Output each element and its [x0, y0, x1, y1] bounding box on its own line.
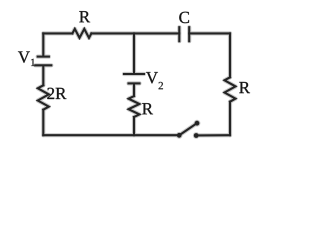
battery V1 top plate (short, negative): [38, 56, 49, 58]
wire top-right segment (C1 to top-right corner): [189, 32, 230, 34]
wire left lower segment (R2 to bottom-left corner): [42, 110, 44, 136]
battery V2 bottom plate (short, negative): [129, 82, 140, 84]
battery V1 bottom plate (long, positive): [35, 64, 51, 66]
resistor R2 (2R) zigzag: [38, 85, 49, 109]
wire bottom-right segment (switch S1 to bottom-right corner): [196, 134, 230, 136]
wire middle branch (V2 to resistor R4): [133, 85, 135, 97]
label C1 value "C": [179, 12, 189, 23]
label battery V2 "V2": [146, 72, 163, 89]
label R2 value "2R": [47, 88, 66, 99]
wire middle branch lower (R4 to bottom junction node): [133, 117, 135, 135]
wire top-left segment (node A to resistor R1): [43, 32, 72, 34]
capacitor C1 left plate: [178, 27, 180, 41]
label R3 value "R": [239, 82, 250, 93]
wire top-middle segment (R1 to capacitor C1): [91, 32, 179, 34]
switch S1 lever end dot: [195, 121, 200, 126]
resistor R1 (top R) zigzag: [72, 29, 91, 38]
switch S1 right terminal dot: [194, 133, 199, 138]
switch S1 lever: [180, 123, 197, 135]
resistor R3 (right R) zigzag: [225, 77, 236, 101]
wire bottom-left segment (bottom-left corner to switch S1): [43, 134, 179, 136]
resistor R4 (middle R) zigzag: [129, 96, 140, 117]
wire left upper segment (top-left corner to battery V1): [42, 33, 44, 55]
wire right lower segment: [229, 102, 231, 136]
wire right upper segment: [229, 33, 231, 77]
battery V2 top plate (long, positive): [124, 73, 144, 75]
label R1 value "R": [79, 11, 90, 22]
capacitor C1 right plate: [188, 27, 190, 41]
wire left middle segment (V1 to resistor R2): [42, 66, 44, 85]
scan-softness underlay for all wires (decorative halo): [35, 27, 235, 135]
label battery V1 "V1": [18, 51, 35, 66]
wire middle branch upper (top junction node to battery V2): [133, 33, 135, 73]
label R4 value "R": [142, 103, 153, 114]
switch S1 left terminal dot: [177, 133, 182, 138]
